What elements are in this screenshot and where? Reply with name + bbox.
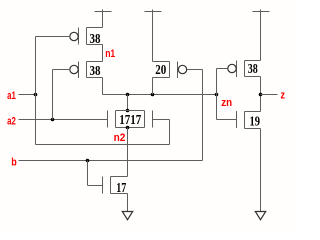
power rail VDD3 stem wire: [260, 10, 262, 61]
nmos pair M4 gate plate: [107, 111, 109, 128]
pmos M1 gate plate: [78, 28, 80, 45]
pmos M2 gate plate: [78, 62, 80, 79]
nmos pair M5 value 17 gate a1 right channel plate: [144, 111, 146, 128]
svg-text:a1: a1: [7, 90, 16, 102]
pmos M7 value 38 gate zn : source lead wire: [245, 60, 261, 62]
power rail VDD2 stem wire: [152, 10, 154, 62]
ground symbol right: [255, 212, 265, 220]
wire b input horizontal: [19, 160, 203, 162]
wire node n2 vertical: [127, 128, 129, 177]
wire a2 gate stub to M2 bubble: [53, 69, 70, 71]
wire a1 to right gate plate: [153, 119, 170, 121]
svg-text:b: b: [11, 156, 17, 168]
svg-text:1717: 1717: [119, 113, 141, 128]
nmos pair top lead wire: [116, 110, 145, 112]
node n1 wire: [102, 45, 104, 62]
wire M8 drain to z: [260, 95, 262, 112]
nmos pair M4 value 17 gate a2 left channel plate: [115, 111, 117, 128]
nmos M6 channel plate: [110, 177, 112, 194]
power rail VDD1 stem wire: [102, 10, 104, 28]
nmos M8 value 19 gate zn : gate plate: [236, 111, 238, 128]
wire a1 riser to pair right gate: [169, 120, 171, 145]
pmos M2 drain lead wire: [87, 77, 103, 79]
power rail VDD2 bar: [145, 11, 162, 13]
pmos M3 value 20 gate b : source lead wire: [153, 61, 170, 63]
wire net zn horizontal: [103, 94, 217, 96]
wire zn to M8 gate: [217, 119, 237, 121]
wire b branch to M6 gate: [88, 185, 103, 187]
svg-text:n2: n2: [114, 132, 126, 144]
wire a1 bottom horizontal run: [36, 144, 170, 146]
junction dot a2: [51, 118, 55, 122]
pmos M3 drain lead wire: [153, 77, 170, 79]
wire zn to inverter vertical: [216, 69, 218, 120]
pmos M3 gate bubble: [178, 65, 186, 73]
nmos M6 source lead wire: [111, 193, 128, 195]
svg-text:19: 19: [250, 115, 261, 130]
pmos M3 channel plate: [169, 62, 171, 78]
pmos M3 drain wire to zn: [152, 78, 154, 95]
junction dot z: [259, 93, 263, 97]
pmos M1 gate bubble: [70, 32, 78, 40]
pmos M7 gate plate: [236, 61, 238, 78]
wire a1 vertical: [35, 37, 37, 145]
svg-text:n1: n1: [105, 48, 115, 60]
svg-text:17: 17: [116, 181, 126, 196]
svg-text:z: z: [281, 90, 286, 102]
pmos M1 drain lead wire: [87, 44, 103, 46]
pmos M2 channel plate: [86, 62, 88, 78]
wire M3 gate to b riser: [187, 69, 203, 71]
wire M7 drain to z: [260, 77, 262, 95]
wire output z horizontal: [261, 94, 278, 96]
svg-text:38: 38: [90, 32, 101, 47]
junction dot pair drain: [126, 109, 130, 113]
svg-text:20: 20: [155, 63, 166, 78]
nmos pair M5 gate plate: [152, 111, 154, 128]
wire a2 input horizontal to pair left gate: [19, 119, 108, 121]
pmos M7 gate bubble: [228, 64, 236, 72]
wire a1 gate stub to M1 bubble: [36, 36, 70, 38]
wire zn riser to pair drain: [127, 95, 129, 111]
wire M2 drain to zn: [102, 78, 104, 95]
junction dot b: [86, 159, 90, 163]
nmos M8 source lead wire: [245, 128, 261, 130]
svg-text:zn: zn: [221, 97, 232, 109]
pmos M3 gate plate: [177, 62, 179, 79]
nmos M8 drain lead wire: [245, 111, 261, 113]
svg-text:38: 38: [248, 62, 258, 77]
pmos M2 value 38 gate a2 : source lead wire: [87, 61, 103, 63]
wire b riser vertical: [202, 70, 204, 161]
junction dot zn at inverter: [215, 93, 219, 97]
ground symbol left: [122, 212, 132, 220]
nmos M6 value 17 gate b : gate plate: [102, 177, 104, 194]
pmos M7 drain lead wire: [245, 76, 261, 78]
wire a1 input horizontal: [19, 94, 36, 96]
power rail VDD1 bar: [95, 11, 112, 13]
junction dot pair source: [126, 126, 130, 130]
junction dot zn at M3 drain: [151, 93, 155, 97]
nmos pair bottom lead wire: [116, 127, 145, 129]
svg-text:a2: a2: [7, 115, 16, 127]
pmos M7 channel plate: [244, 61, 246, 77]
wire M8 source to ground: [260, 129, 262, 212]
pmos M1 value 38 gate a1 : source lead wire: [87, 27, 103, 29]
wire a2 vertical: [52, 70, 54, 120]
wire b branch vertical: [87, 161, 89, 186]
junction dot zn at pair: [126, 93, 130, 97]
pmos M2 gate bubble: [70, 65, 78, 73]
pmos M1 channel plate: [86, 28, 88, 45]
nmos M8 channel plate: [244, 112, 246, 129]
wire zn to M7 gate bubble: [217, 68, 228, 70]
wire M6 source to ground: [127, 194, 129, 212]
power rail VDD3 bar: [253, 11, 270, 13]
svg-text:38: 38: [90, 64, 101, 79]
nmos M6 drain lead wire: [111, 176, 128, 178]
junction dot a1: [34, 93, 38, 97]
